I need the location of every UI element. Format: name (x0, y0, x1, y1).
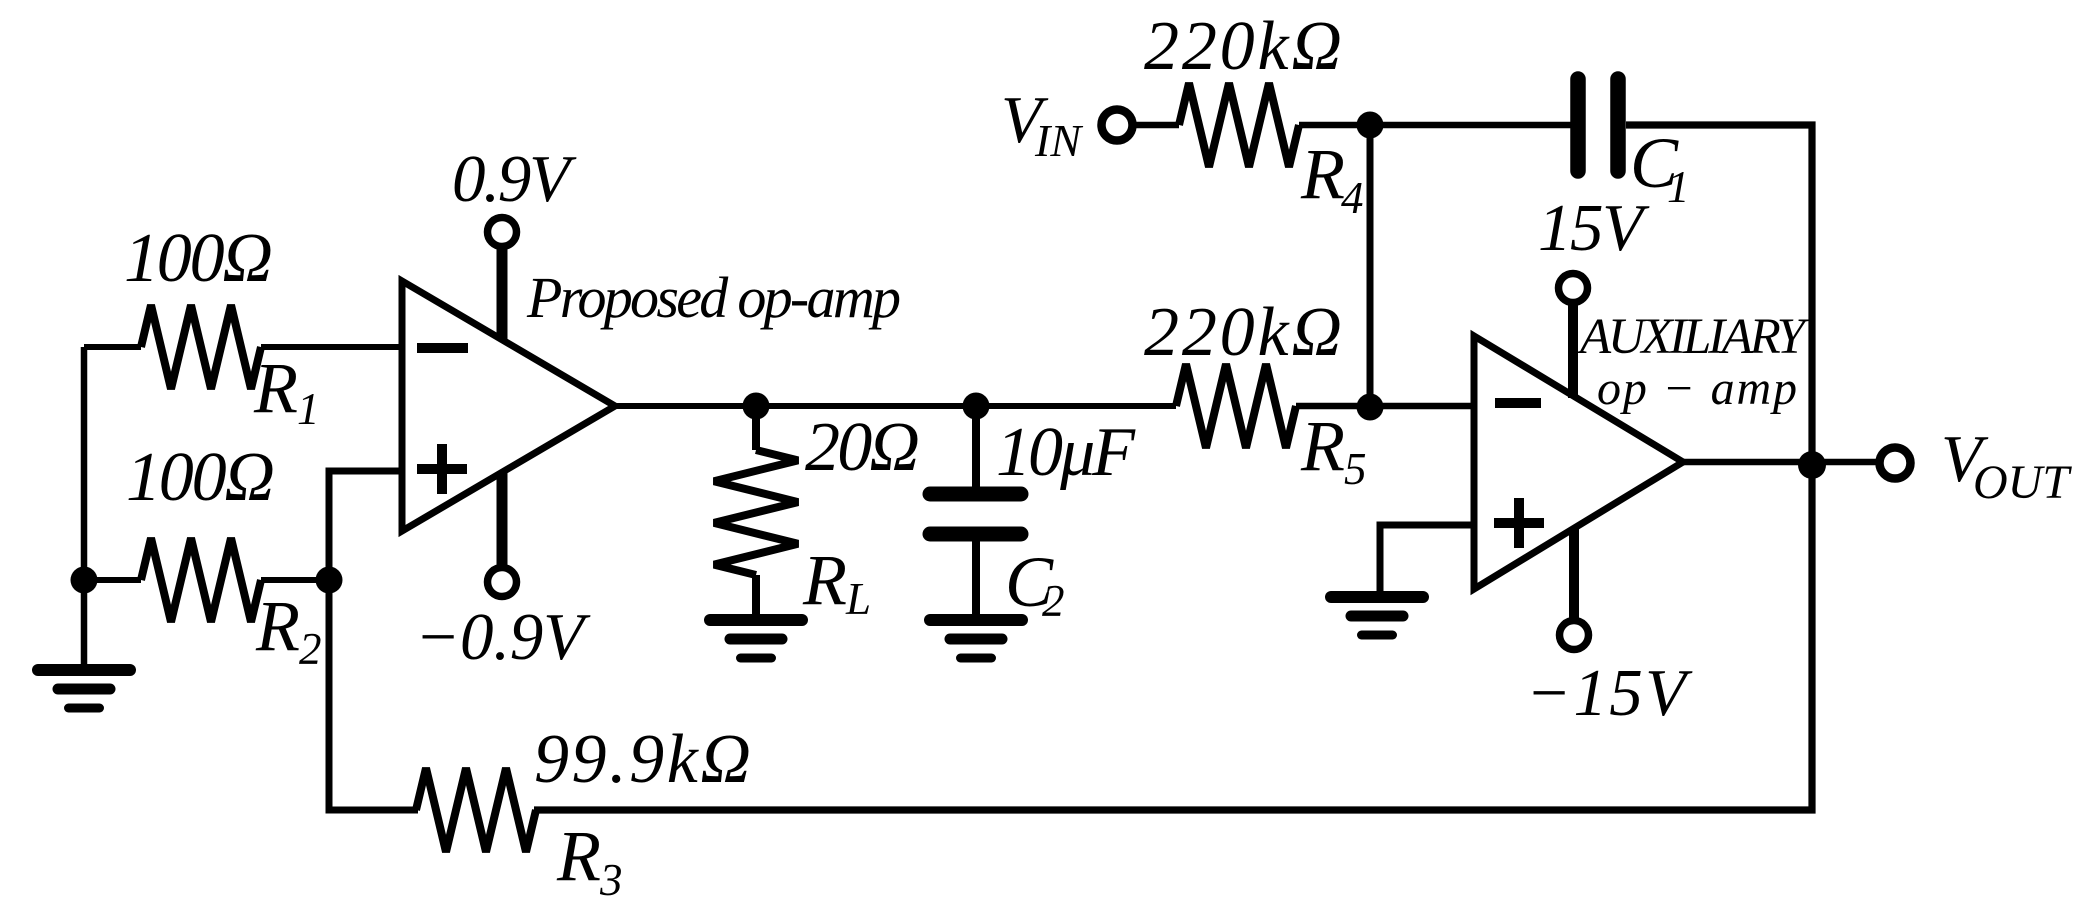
svg-text:5: 5 (1344, 444, 1367, 494)
U2 minus sign (1495, 398, 1541, 408)
svg-text:1: 1 (1667, 162, 1690, 212)
svg-text:−15V: −15V (1526, 656, 1693, 730)
svg-text:220kΩ: 220kΩ (1144, 8, 1342, 85)
terminal circle 15V (1559, 274, 1588, 303)
junction: output / RL node (743, 393, 770, 420)
svg-text:1: 1 (297, 384, 320, 434)
resistor RL (20Ω) vertical (752, 406, 760, 450)
U2 negative supply stub -15V (1569, 528, 1579, 620)
resistor R4 (220kΩ) (1134, 122, 1179, 129)
wire: feedback vertical bus (node B) from + input down to R3 (329, 471, 418, 810)
capacitor C2 (10µF) (972, 406, 980, 489)
terminal circle -0.9V (488, 568, 517, 597)
U1 plus sign (non-inverting input) (417, 464, 467, 474)
svg-text:R: R (802, 540, 847, 620)
svg-text:4: 4 (1341, 173, 1364, 223)
svg-text:3: 3 (599, 855, 623, 905)
svg-text:R: R (253, 348, 298, 428)
resistor R3 (99.9kΩ) (416, 768, 536, 852)
ground (U2 + input) (1331, 591, 1423, 603)
junction: output / C2 node (963, 393, 990, 420)
U1 minus sign (inverting input) (417, 343, 468, 353)
wire: U2 non-inverting input to ground (1380, 525, 1474, 594)
svg-text:L: L (845, 574, 871, 624)
svg-text:2: 2 (299, 624, 322, 674)
svg-text:R: R (556, 816, 601, 896)
svg-text:R: R (255, 586, 300, 666)
svg-text:99.9kΩ: 99.9kΩ (534, 721, 751, 798)
svg-text:Proposed op-amp: Proposed op-amp (526, 265, 901, 330)
svg-text:100Ω: 100Ω (124, 220, 273, 297)
wire: left vertical bus from R1/R2 to ground (81, 347, 88, 668)
ground (left, below R2 node) (38, 664, 130, 676)
terminal circle 0.9V (488, 218, 517, 247)
resistor R5 (220kΩ) (1176, 364, 1296, 448)
terminal circle VOUT (1880, 448, 1911, 479)
svg-text:R: R (1300, 406, 1345, 486)
op-amp U1 (Proposed op-amp) triangle (402, 281, 615, 531)
svg-text:op − amp: op − amp (1597, 362, 1797, 415)
ground (below RL) (710, 614, 802, 626)
capacitor C1 (feedback) (1570, 79, 1586, 171)
svg-text:−0.9V: −0.9V (415, 600, 591, 674)
svg-text:R: R (1300, 134, 1345, 214)
svg-text:0.9V: 0.9V (452, 142, 577, 216)
wire: U1 output to R5 (613, 403, 1176, 409)
junction: R2 right node / feedback node (316, 567, 343, 594)
op-amp U2 (AUXILIARY op-amp) triangle (1474, 336, 1683, 589)
resistor R1 (100Ω) (84, 344, 141, 350)
wire: R1 to op-amp U1 inverting input (261, 344, 404, 350)
svg-text:2: 2 (1042, 576, 1065, 626)
wire: vertical from R4 node down to R5 node (1367, 125, 1374, 406)
terminal circle -15V (1560, 621, 1589, 650)
terminal circle VIN (1102, 110, 1133, 141)
svg-text:15V: 15V (1538, 191, 1650, 265)
U2 positive supply stub 15V (1568, 303, 1578, 398)
svg-text:AUXILIARY: AUXILIARY (1577, 309, 1810, 365)
svg-text:OUT: OUT (1973, 456, 2072, 509)
ground (below C2) (930, 614, 1022, 626)
junction: R4 output node (1357, 112, 1384, 139)
junction: R5 / R4 bus node (1357, 394, 1384, 421)
wire: C1 right plate to right feedback bus (534, 125, 1812, 810)
U1 negative supply stub -0.9V (497, 472, 508, 568)
U1 positive supply stub 0.9V (497, 246, 508, 340)
svg-text:220kΩ: 220kΩ (1144, 294, 1342, 371)
svg-text:IN: IN (1034, 115, 1083, 166)
junction: VOUT / feedback bus (1798, 451, 1826, 479)
U2 plus sign (1494, 518, 1544, 528)
wire: U2 output to VOUT terminal (1681, 459, 1878, 466)
svg-text:20Ω: 20Ω (805, 409, 920, 486)
resistor R2 (100Ω) (84, 577, 141, 583)
svg-text:100Ω: 100Ω (126, 439, 275, 516)
svg-text:10μF: 10μF (996, 414, 1136, 491)
junction: R2 left node to ground bus (71, 567, 98, 594)
